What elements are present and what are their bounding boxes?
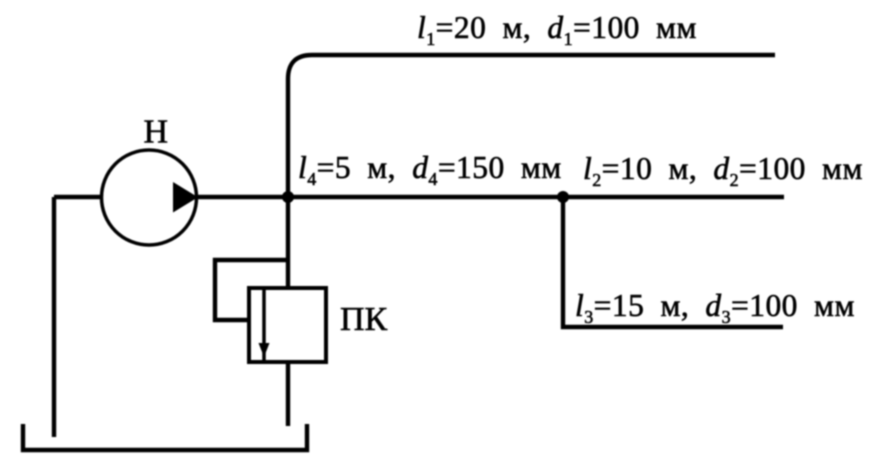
svg-text:l2=10 м, d2=100 мм: l2=10 м, d2=100 мм xyxy=(583,151,863,190)
svg-text:l1=20 м, d1=100 мм: l1=20 м, d1=100 мм xyxy=(417,10,697,49)
svg-text:l3=15 м, d3=100 мм: l3=15 м, d3=100 мм xyxy=(575,288,855,327)
svg-text:Н: Н xyxy=(144,114,169,151)
svg-text:ПК: ПК xyxy=(340,301,388,338)
